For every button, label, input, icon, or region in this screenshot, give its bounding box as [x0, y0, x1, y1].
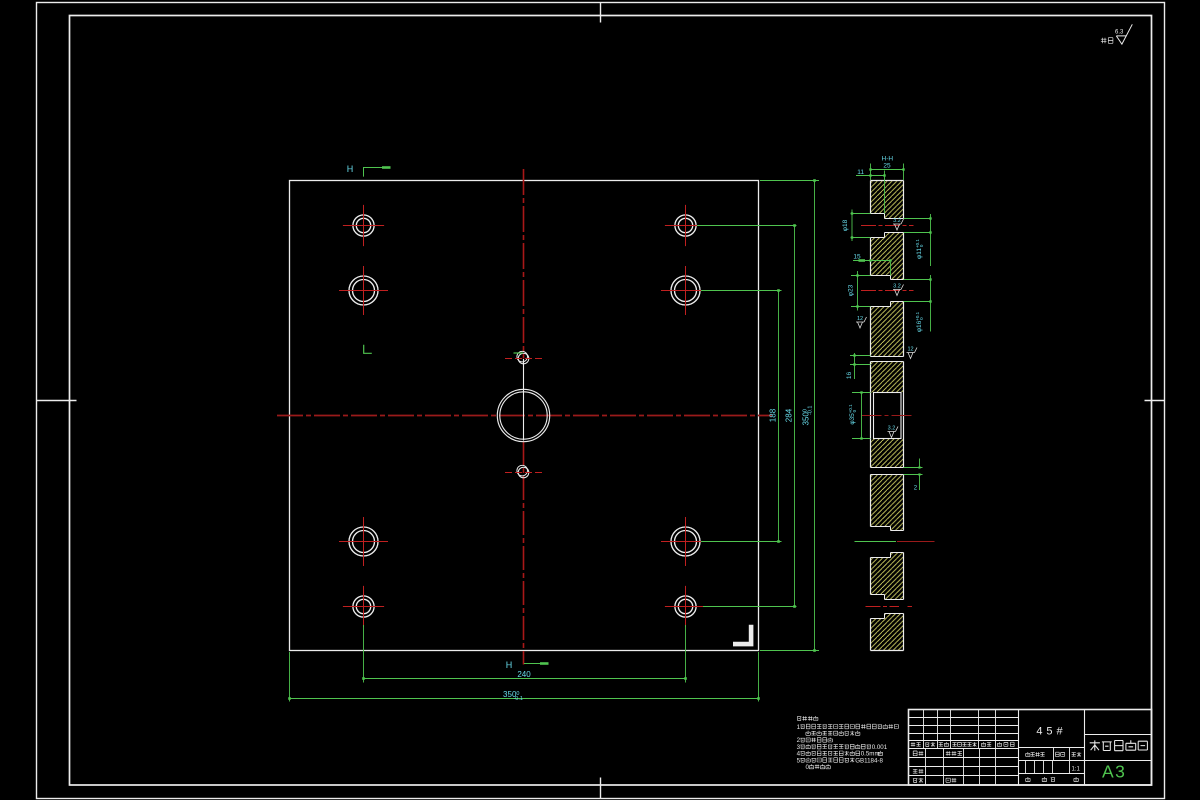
svg-text:φ23: φ23: [848, 284, 855, 296]
section hole C outline: [871, 527, 904, 558]
svg-text:GB1184-8: GB1184-8: [855, 757, 883, 764]
title block outer box: [909, 710, 1152, 786]
section mark H top: [347, 164, 391, 177]
section hole cutouts: [870, 214, 904, 619]
svg-text:11: 11: [857, 169, 864, 176]
dim 350 extension lines right: [760, 180, 819, 182]
roughness 3.2 hole A: [893, 218, 904, 230]
hole C2 φ16/φ23 right: [661, 517, 710, 566]
svg-text:284: 284: [785, 408, 794, 422]
centerline bore section: [862, 415, 914, 417]
hole B2 φ16/φ23 right: [661, 266, 710, 315]
svg-text:5: 5: [797, 757, 801, 764]
centering tick top: [600, 2, 602, 23]
centerline hole B section: [861, 290, 914, 292]
svg-text:12: 12: [907, 347, 913, 353]
small pin hole bottom: [505, 465, 543, 478]
hole B1 φ16/φ23 left: [339, 266, 388, 315]
dim 25: [869, 162, 904, 170]
svg-text:3.2: 3.2: [893, 284, 901, 290]
dim 25 extension: [870, 164, 872, 181]
svg-text:3.2: 3.2: [893, 218, 901, 224]
svg-text:6.3: 6.3: [1115, 30, 1124, 36]
svg-text:12: 12: [857, 316, 863, 322]
title block middle labels: [1026, 752, 1082, 782]
vertical centerline: [523, 169, 525, 359]
dim φ11: [904, 214, 932, 266]
svg-text:H-H: H-H: [882, 155, 894, 162]
centerline hole D section: [866, 606, 900, 608]
svg-text:H: H: [506, 660, 513, 670]
dim 350 right: [802, 179, 816, 652]
svg-text:H: H: [347, 164, 354, 174]
hole D1 φ11/φ18 bottom-left: [343, 586, 384, 627]
dim 188 extension lines: [697, 225, 797, 227]
title block grid lines: [909, 710, 1152, 786]
section cut line vertical: [523, 359, 525, 441]
svg-text:45#: 45#: [1036, 726, 1066, 738]
plate outline front view: [290, 181, 759, 651]
hole C1 φ16/φ23 left: [339, 517, 388, 566]
section hole B outline: [871, 276, 904, 307]
dim φ35: [848, 391, 871, 439]
centerline hole C section: [855, 541, 897, 543]
hole A1 φ11/φ18 top-left: [343, 205, 384, 246]
section strip hatched body: [871, 181, 904, 651]
svg-text:240: 240: [517, 670, 531, 679]
svg-text:3.2: 3.2: [888, 426, 896, 432]
roughness 12 left: [856, 316, 867, 328]
svg-text:25: 25: [883, 162, 891, 169]
hole A2 φ11/φ18 top-right: [665, 205, 706, 246]
technical notes 技术要求: [797, 716, 899, 771]
horizontal centerline: [277, 415, 772, 417]
section jog segment center: [514, 352, 524, 354]
svg-text:188: 188: [769, 408, 778, 422]
section pin slot top outline: [871, 356, 904, 358]
section strip outline: [871, 181, 904, 651]
dim 188: [769, 289, 780, 543]
dim 240: [362, 670, 687, 680]
dim 11: [856, 169, 886, 177]
centering tick right: [1145, 400, 1166, 402]
svg-text:A3: A3: [1102, 762, 1126, 782]
roughness 3.2 hole B: [893, 284, 904, 296]
title block left labels: [911, 742, 1014, 783]
corner mark bottom right: [733, 625, 751, 644]
section jog corner L: [364, 345, 372, 354]
svg-text:1: 1: [797, 724, 801, 731]
section pin slot bottom outline: [871, 467, 904, 469]
hole D2 φ11/φ18 bottom-right: [665, 586, 706, 627]
svg-text:φ18: φ18: [842, 219, 849, 231]
center bore φ35: [497, 389, 549, 441]
dim 2 pin slot: [904, 459, 923, 492]
dim 350 bottom: [288, 690, 760, 702]
dim 350 extension lines bottom: [289, 652, 291, 702]
section center bore outline: [874, 393, 902, 439]
dim 240 extension lines: [363, 625, 365, 683]
part name 动模固定板: [1090, 740, 1148, 751]
dim 15: [853, 254, 892, 276]
svg-text:16: 16: [846, 372, 853, 380]
section hole D outline: [871, 595, 904, 619]
svg-text:1:1: 1:1: [1072, 767, 1081, 773]
small pin hole top: [505, 351, 543, 364]
centering tick left: [36, 400, 77, 402]
roughness 12 right: [907, 347, 918, 359]
roughness 3.2 bore: [888, 426, 899, 438]
dim φ23: [848, 271, 871, 311]
section hole A outline: [871, 214, 904, 238]
dim φ16: [904, 275, 932, 332]
dim φ18: [842, 210, 871, 242]
svg-text:15: 15: [853, 254, 861, 261]
dim 284: [785, 224, 796, 608]
dim 16: [846, 353, 871, 379]
svg-text:0: 0: [806, 764, 810, 771]
section mark H bottom: [506, 660, 549, 670]
centering tick bottom: [600, 778, 602, 799]
centerline hole A section: [861, 225, 914, 227]
surface roughness symbol 其余 6.3: [1101, 24, 1132, 44]
